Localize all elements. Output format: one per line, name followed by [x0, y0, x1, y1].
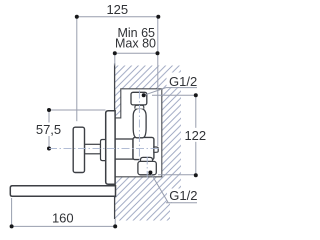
wall hatch right of niche	[162, 89, 181, 177]
dim 125 end dots	[75, 15, 79, 19]
svg-text:G1/2: G1/2	[169, 188, 197, 203]
niche outline	[115, 89, 162, 177]
dim 160 line	[12, 225, 116, 227]
vertical centerline valve column	[138, 91, 140, 162]
stem between handle and collar	[85, 144, 101, 154]
dim 122 line	[195, 95, 197, 175]
dim 160 right extension	[114, 219, 116, 226]
outlet stub	[154, 147, 158, 152]
dim 160 left extension	[11, 198, 13, 226]
escutcheon plate	[106, 111, 115, 185]
lower bridge bump	[141, 157, 153, 161]
svg-text:Max 80: Max 80	[115, 37, 156, 51]
valve body	[133, 137, 154, 159]
spout	[10, 186, 115, 197]
Min/Max left extension	[114, 53, 116, 65]
top G1/2 leader	[144, 88, 197, 96]
top fitting	[131, 92, 147, 105]
dim 122 dots	[194, 93, 198, 97]
wall hatch lower band	[115, 177, 181, 221]
svg-text:122: 122	[184, 128, 206, 143]
neck under top fitting	[135, 105, 144, 108]
bottom G1/2 leader	[150, 173, 197, 203]
svg-text:125: 125	[106, 2, 128, 17]
wall hatch left strip beside niche	[115, 89, 121, 118]
svg-text:160: 160	[52, 210, 74, 225]
white knockout behind top G1/2 label	[167, 73, 197, 88]
dim 160 dots	[10, 224, 14, 228]
wall hatch upper band	[115, 66, 181, 89]
collar at escutcheon	[101, 140, 106, 161]
horizontal centerline	[49, 148, 160, 150]
wall face line	[114, 64, 116, 220]
dim 57,5 vertical line	[48, 110, 50, 149]
dim 57,5 top extension	[49, 109, 106, 111]
bottom fitting	[138, 161, 156, 174]
white knockout behind bottom G1/2 label	[167, 189, 197, 203]
dim 122 bottom extension	[158, 174, 196, 176]
connector through wall	[109, 139, 133, 159]
knockout behind 57,5	[36, 123, 62, 137]
dim 57,5 dots	[47, 108, 51, 112]
dim 125 line	[77, 16, 159, 18]
bottom G1/2 leader dot	[148, 171, 152, 175]
dim 125 left extension	[76, 17, 78, 121]
dim Min/Max line	[115, 52, 158, 54]
svg-text:G1/2: G1/2	[169, 74, 197, 89]
top G1/2 leader dot	[142, 93, 146, 97]
svg-text:57,5: 57,5	[36, 122, 61, 137]
vertical centerline bottom fitting	[146, 157, 148, 178]
shared right extension line	[157, 17, 159, 146]
handle bar	[73, 127, 84, 172]
label 122 with knockout	[186, 128, 207, 142]
dim 122 top extension	[152, 94, 196, 96]
Min/Max end dots	[113, 51, 117, 55]
cartridge capsule	[133, 108, 146, 137]
